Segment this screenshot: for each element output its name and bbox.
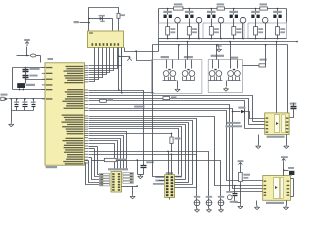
- wire U3 TXD down: [118, 48, 120, 91]
- LCD module J2 body: [111, 172, 122, 192]
- label U2: [48, 58, 54, 60]
- keypad bus row 1: [159, 38, 287, 40]
- wire top rail U3: [89, 8, 119, 31]
- wire right col down A: [276, 42, 278, 113]
- electrolytic C13: [227, 195, 232, 200]
- wire VCC1 down: [26, 47, 28, 56]
- J2 right pin pads: [123, 172, 133, 183]
- bus wire PD3: [89, 99, 249, 125]
- switch S2: [196, 17, 202, 23]
- bus wire PD1: [89, 92, 153, 94]
- resistor R9: [259, 64, 266, 67]
- resistor R4 vertical: [171, 134, 173, 137]
- wire LCD data 2: [89, 148, 95, 150]
- crystal Y1: [17, 83, 25, 88]
- resistor RU1: [166, 27, 170, 35]
- bus wire PD7: [89, 111, 263, 181]
- resistor RU6: [276, 27, 280, 35]
- inductor L1: [31, 54, 36, 57]
- J3 left wire: [153, 45, 165, 177]
- wire LCD data 1: [89, 146, 98, 148]
- ground flag GND17: [218, 45, 220, 48]
- top rail wire: [159, 8, 287, 10]
- wire R1 to U3: [118, 19, 120, 31]
- capacitor C2: [24, 99, 26, 104]
- J3 right labels: [175, 176, 182, 178]
- capacitor C6: [141, 165, 147, 167]
- wire R9 riser: [265, 45, 267, 66]
- bus nested wires to LCD: [89, 139, 121, 171]
- ground GND15: [256, 201, 258, 206]
- bus wire PC0: [89, 117, 263, 186]
- J3 bottom stub: [169, 198, 171, 200]
- net tap left of U3: [74, 21, 79, 23]
- long wire bottom A to C8: [89, 152, 209, 200]
- wire J4 to MCU RESET: [9, 98, 45, 100]
- power flag VCC1: [25, 42, 29, 47]
- transistor pair Q7 Q8: [228, 71, 234, 77]
- relay box RL1 feeds: [166, 60, 168, 69]
- wire L1 to MCU VCC: [36, 55, 41, 57]
- ground GND4: [132, 187, 134, 195]
- optocoupler U4: [265, 113, 289, 134]
- wire OSC row: [13, 89, 45, 91]
- keypad bus row 3: [153, 44, 288, 46]
- LCD module J2 label: [108, 168, 128, 170]
- transistor pair Q3 Q4: [182, 71, 188, 77]
- capacitor CT4: [233, 9, 235, 15]
- resistor R2 series: [100, 99, 107, 102]
- ground GND1: [9, 123, 14, 127]
- ground GND3: [138, 174, 144, 176]
- capacitor CT5: [255, 9, 257, 15]
- ground GND14: [238, 205, 243, 209]
- bus wire PD2: [89, 96, 253, 122]
- resistor R7 top: [217, 7, 225, 10]
- U3 bottom pin wires staircase: [89, 48, 122, 66]
- U4 label: [267, 136, 285, 138]
- U4 left net labels: [227, 122, 241, 124]
- resistor R8 top: [260, 7, 268, 10]
- resistor RU3: [209, 27, 213, 35]
- switch S3: [218, 17, 224, 23]
- switch S5: [262, 17, 268, 23]
- diode D1: [89, 18, 100, 20]
- U5 label: [266, 202, 284, 204]
- bus wire PD4: [89, 101, 245, 129]
- transistor pair Q1 Q2: [163, 71, 169, 77]
- ground GND16: [286, 201, 288, 206]
- group box K1: [158, 23, 199, 39]
- ground GND12: [258, 135, 260, 145]
- long wire bottom B to C7: [89, 155, 197, 200]
- resistor RU2: [187, 27, 191, 35]
- capacitor C4: [23, 69, 29, 71]
- relay box RL1: [152, 60, 202, 94]
- ground GND6: [196, 206, 198, 209]
- capacitor C1: [16, 99, 18, 104]
- wire crystal legs: [19, 89, 21, 90]
- bus wire PD5: [89, 105, 263, 192]
- U2 pin name text left column: [46, 67, 53, 100]
- resistor RU4: [232, 27, 236, 35]
- ground GND10: [177, 81, 179, 88]
- bus wire PD6: [89, 109, 263, 189]
- wire keypad row feed RL1b: [187, 42, 189, 60]
- wire keypad row feed RL2a: [216, 45, 218, 60]
- transistor pair Q5 Q6: [209, 71, 215, 77]
- capacitor CT2: [189, 9, 191, 15]
- J3 right wires: [175, 176, 182, 178]
- ground GND11: [226, 81, 228, 87]
- wire branch down to RL1: [137, 52, 152, 61]
- net label RST: [134, 106, 145, 108]
- driver IC U3: [88, 31, 124, 48]
- bus wire PD0: [89, 91, 144, 166]
- electrolytic C8: [206, 200, 212, 206]
- switch S1: [175, 17, 181, 23]
- wire LCD data 3: [89, 157, 92, 159]
- wire U5 right leg: [293, 179, 295, 197]
- optocoupler U5: [263, 176, 291, 201]
- wire XTAL2 row: [26, 79, 45, 81]
- capacitor CT3: [211, 9, 213, 15]
- group box K2: [203, 23, 244, 39]
- U2 right pin stubs: [85, 66, 89, 163]
- capacitor C12: [234, 185, 236, 187]
- wire J2 bottom: [122, 186, 138, 188]
- microcontroller U2: [45, 63, 85, 165]
- J3 top feed 1: [168, 152, 170, 175]
- wire keypad row feed RL2b: [230, 42, 232, 60]
- wire U4 left pins: [253, 121, 265, 123]
- U3 internal pin marks: [89, 32, 119, 46]
- wire right col down B: [287, 45, 289, 113]
- power flag VCC3: [239, 163, 243, 168]
- switch S4: [240, 17, 246, 23]
- relay box RL2: [208, 60, 242, 93]
- relay box RL2 feeds: [212, 60, 214, 69]
- ground GND13: [286, 135, 288, 145]
- wire XTAL1 row: [13, 67, 45, 69]
- wire LCD data 5: [86, 163, 100, 185]
- wire U3 pin 8: [89, 48, 95, 82]
- U2 pin name text right column: [62, 66, 84, 165]
- wire R10 to ground: [240, 186, 242, 205]
- capacitor C10: [291, 106, 297, 108]
- label below U2: [46, 166, 58, 168]
- bus wire PC6: [89, 129, 179, 175]
- resistor R10: [240, 167, 242, 173]
- J2 left pin pads: [99, 173, 109, 186]
- resistor R3 series: [163, 97, 170, 100]
- U2 left pin stubs: [42, 68, 45, 99]
- electrolytic C7: [194, 200, 200, 206]
- connector J4: [1, 94, 8, 96]
- wire U3 RXD down: [121, 48, 123, 93]
- electrolytic C9: [218, 200, 224, 206]
- capacitor CT6: [277, 9, 279, 15]
- J3 left labels: [155, 176, 164, 178]
- resistor R6 top: [174, 7, 184, 10]
- transistor Q9: [284, 170, 289, 172]
- wire U3 right to keypad rail: [125, 48, 159, 52]
- bus wire nested 0: [89, 132, 127, 171]
- bus wire to R4: [89, 133, 172, 135]
- power flag VCC2: [282, 159, 286, 164]
- wire RL2 out: [243, 65, 259, 67]
- J3 top feed 2: [171, 155, 173, 175]
- ground GND8: [220, 206, 222, 209]
- ground flag GND2: [119, 56, 128, 58]
- group box K3: [248, 23, 286, 39]
- resistor RU5: [254, 27, 258, 35]
- wire to GND1: [11, 99, 13, 123]
- wire cap ground bus: [12, 110, 34, 112]
- wire resistor R5 row: [85, 160, 89, 162]
- ISP header J3 body: [165, 175, 175, 198]
- resistor R1: [117, 13, 120, 18]
- diode D2: [233, 111, 241, 113]
- wire keypad row feed RL1a: [178, 45, 180, 60]
- capacitor CT1: [167, 9, 169, 15]
- ground GND7: [208, 206, 210, 209]
- capacitor C5: [23, 75, 29, 77]
- wire diode to U3: [112, 19, 114, 31]
- keypad bus row 2: [159, 41, 297, 43]
- bus wires port C: [89, 119, 197, 188]
- ISP header J3 label: [166, 172, 173, 174]
- wire LCD data 4: [89, 161, 100, 183]
- wire xtal vertical: [25, 68, 27, 84]
- capacitor C3: [33, 99, 35, 104]
